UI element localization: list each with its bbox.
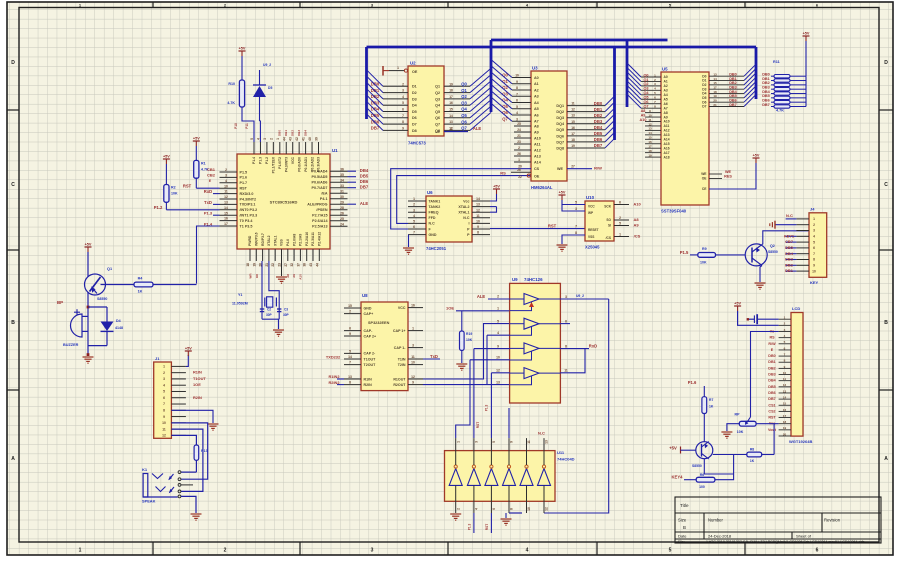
svg-text:DQ5: DQ5 — [556, 128, 564, 132]
U3 pin A11 — [514, 143, 531, 145]
svg-text:P1.3: P1.3 — [468, 523, 472, 530]
jack pin 4 — [178, 490, 181, 493]
U8 right pin CAP 1+ — [408, 330, 423, 332]
svg-text:J4: J4 — [810, 207, 815, 212]
svg-text:/INT0 P3.2: /INT0 P3.2 — [240, 208, 258, 212]
svg-text:3: 3 — [575, 207, 577, 211]
svg-text:14: 14 — [224, 206, 228, 210]
pot right to LCD pin18 — [756, 423, 779, 425]
J1 pin8 to ground — [171, 410, 213, 423]
KEY pin 6 — [796, 247, 809, 249]
svg-text:U8: U8 — [362, 293, 368, 298]
svg-text:P1.5: P1.5 — [240, 170, 248, 174]
svg-text:10K: 10K — [466, 338, 473, 342]
LCD pin 10 — [779, 374, 791, 376]
svg-text:DB2: DB2 — [594, 113, 603, 118]
title block — [675, 497, 881, 543]
inverter 5 — [520, 469, 533, 486]
svg-text:DB0: DB0 — [278, 130, 282, 136]
U1 bottom pin P2.1/A9 — [299, 249, 301, 261]
KEY pin 7 — [796, 253, 809, 255]
svg-text:Q4: Q4 — [643, 91, 649, 95]
svg-text:7: 7 — [349, 361, 351, 365]
header J4 KEY — [809, 213, 827, 277]
svg-text:D3: D3 — [412, 97, 417, 101]
svg-text:5: 5 — [402, 101, 404, 105]
U8 right pin T1IN — [408, 358, 423, 360]
KEY pin5 label — [786, 241, 797, 243]
svg-text:P4.3/INT2: P4.3/INT2 — [240, 197, 257, 201]
svg-text:Number: Number — [708, 518, 723, 523]
svg-text:19: 19 — [571, 144, 575, 148]
svg-text:2: 2 — [163, 371, 165, 375]
svg-text:CAP-: CAP- — [364, 329, 374, 333]
jack pin 2 — [178, 478, 181, 481]
svg-text:10: 10 — [411, 361, 415, 365]
U1 bottom pin P2.0/A8 — [293, 249, 295, 261]
U5 pin D2 / net DB2 — [709, 84, 744, 86]
U1 right pin P0.6/AD6 — [330, 181, 348, 183]
svg-text:R/W: R/W — [768, 342, 776, 346]
svg-text:D8: D8 — [412, 129, 417, 133]
LCD pin 5 — [779, 343, 791, 345]
svg-text:Y1: Y1 — [238, 293, 242, 297]
svg-text:DB0: DB0 — [594, 101, 603, 106]
svg-text:TxD: TxD — [430, 354, 438, 359]
svg-text:4: 4 — [413, 214, 415, 218]
svg-text:WR/P3.6: WR/P3.6 — [255, 232, 259, 246]
svg-text:ALE: ALE — [360, 201, 369, 206]
net DB7 — [348, 187, 357, 189]
svg-text:23: 23 — [278, 263, 282, 267]
IC U7 74HC126 quad buffer — [510, 283, 561, 403]
svg-text:1: 1 — [813, 217, 815, 221]
svg-text:30: 30 — [340, 195, 344, 199]
RAM U3 HM6264 — [531, 71, 567, 181]
J1 pin 5 — [171, 390, 186, 392]
svg-text:P1.3: P1.3 — [485, 404, 489, 411]
buffer 4 — [524, 368, 539, 379]
LCD pin 1 — [779, 318, 791, 320]
svg-text:12: 12 — [783, 383, 787, 387]
svg-text:P2.7/A15: P2.7/A15 — [312, 214, 327, 218]
svg-text:WR: WR — [249, 273, 253, 279]
svg-text:R1OUT: R1OUT — [393, 377, 406, 381]
svg-text:+5V: +5V — [559, 191, 566, 195]
svg-text:19: 19 — [252, 263, 256, 267]
U3 pin A6 — [512, 114, 531, 116]
svg-text:A9: A9 — [292, 274, 296, 278]
svg-text:5: 5 — [349, 350, 351, 354]
svg-text:Sheet of: Sheet of — [796, 534, 812, 539]
U7 input wires — [488, 298, 510, 300]
U2 pin Q7 output — [444, 123, 470, 125]
svg-text:+5V: +5V — [163, 155, 170, 159]
U1 left pin T1 P3.5 — [220, 225, 238, 227]
svg-text:RST: RST — [548, 224, 557, 229]
KEY pin 9 — [796, 264, 809, 266]
svg-text:44: 44 — [315, 263, 319, 267]
svg-text:4: 4 — [163, 383, 165, 387]
svg-text:Q1: Q1 — [435, 85, 440, 89]
U1 bottom pin P2.3/A11 — [312, 249, 314, 261]
U1 top pin P1.2 — [266, 142, 268, 154]
svg-text:A: A — [884, 456, 888, 462]
svg-text:J1: J1 — [155, 356, 160, 361]
svg-text:8: 8 — [516, 86, 518, 90]
svg-text:U9: U9 — [512, 277, 518, 282]
ground — [273, 329, 284, 331]
svg-text:32: 32 — [290, 263, 294, 267]
svg-text:/PSEN: /PSEN — [316, 208, 327, 212]
svg-text:A4: A4 — [664, 93, 668, 97]
svg-text:34: 34 — [340, 178, 344, 182]
svg-text:8: 8 — [163, 408, 165, 412]
svg-text:X25045: X25045 — [585, 245, 600, 250]
ground — [755, 282, 766, 284]
svg-text:D1: D1 — [412, 85, 417, 89]
svg-text:1K: 1K — [750, 459, 755, 463]
svg-text:A8: A8 — [641, 109, 646, 113]
svg-text:Q7: Q7 — [461, 126, 467, 131]
svg-text:3: 3 — [475, 441, 479, 443]
U5 pin D1 / net DB1 — [709, 80, 744, 82]
svg-text:Title: Title — [680, 503, 689, 508]
svg-text:9: 9 — [813, 264, 815, 268]
svg-text:2: 2 — [456, 508, 460, 510]
svg-text:27: 27 — [284, 263, 288, 267]
U2 pin Q4 output — [444, 104, 470, 106]
KEY pin 8 — [796, 259, 809, 261]
svg-text:S8550: S8550 — [692, 464, 702, 468]
svg-text:CAP 1+: CAP 1+ — [393, 329, 406, 333]
svg-text:KEY1: KEY1 — [784, 233, 795, 238]
U3 pin DQ6 / net DB5 — [567, 135, 605, 137]
svg-text:10: 10 — [812, 269, 816, 273]
svg-text:Q7: Q7 — [502, 116, 508, 121]
svg-text:ALE: ALE — [473, 126, 482, 131]
svg-text:DQ8: DQ8 — [556, 146, 564, 150]
svg-text:8: 8 — [349, 381, 351, 385]
jack contact arrow1 — [169, 474, 174, 480]
svg-text:3: 3 — [516, 117, 518, 121]
LCD pin 14 — [779, 398, 791, 400]
svg-text:Q6: Q6 — [435, 116, 440, 120]
U1 right pin P0.5/AD5 — [330, 176, 348, 178]
U6 left pin GND — [408, 234, 426, 236]
KEY pin9 label — [786, 264, 797, 266]
svg-text:A2: A2 — [664, 84, 668, 88]
svg-text:DB5: DB5 — [360, 174, 369, 179]
svg-text:4: 4 — [813, 235, 815, 239]
svg-text:Q2: Q2 — [770, 244, 775, 248]
svg-text:18: 18 — [648, 149, 652, 153]
svg-text:5: 5 — [575, 200, 577, 204]
J1 pin 6 — [171, 397, 186, 399]
inverter 3 — [485, 469, 498, 486]
svg-text:Q6: Q6 — [502, 110, 508, 115]
KEY pin6 label — [786, 247, 797, 249]
svg-text:9: 9 — [497, 344, 499, 348]
U2 pin D8 / net DB7 — [383, 129, 408, 131]
svg-text:P10: P10 — [234, 123, 238, 129]
svg-text:DB3: DB3 — [768, 373, 775, 377]
svg-text:P4.1: P4.1 — [320, 197, 328, 201]
svg-text:DB2: DB2 — [768, 366, 775, 370]
U1 top pin P1.1/T2EX — [272, 142, 274, 154]
svg-text:+5V: +5V — [193, 137, 200, 141]
svg-text:1K: 1K — [709, 405, 714, 409]
svg-text:21: 21 — [517, 134, 521, 138]
U5 pin A16 — [645, 147, 661, 149]
U3 R/W pin 27 — [567, 168, 592, 170]
U1 top pin P0.1/AD1 — [305, 142, 307, 154]
U6 left pin N.C — [408, 222, 426, 224]
U2 pin D2 / net DB1 — [383, 92, 408, 94]
svg-text:U5: U5 — [662, 67, 668, 72]
svg-text:A9: A9 — [534, 130, 539, 134]
svg-text:ALE: ALE — [477, 294, 486, 299]
U5 pin D4 / net DB4 — [709, 93, 744, 95]
U3 pin DQ5 / net DB4 — [567, 129, 605, 131]
U1 top pin P0.0/AD0 — [298, 142, 300, 154]
svg-text:D7: D7 — [702, 105, 706, 109]
svg-text:CAP 2+: CAP 2+ — [364, 334, 377, 338]
LCD pin 2 — [779, 324, 791, 326]
capacitor C3 30P — [277, 308, 281, 310]
svg-text:C3: C3 — [284, 308, 288, 312]
svg-text:U6: U6 — [427, 190, 433, 195]
svg-text:CS2: CS2 — [768, 409, 775, 413]
svg-text:P2.1/A9: P2.1/A9 — [299, 234, 303, 246]
KEY pin8 label — [786, 259, 797, 261]
svg-text:R11: R11 — [773, 60, 780, 64]
U6 right pin — [472, 217, 490, 219]
wire Q1 collector down — [87, 292, 89, 354]
LCD Vo wire to pot RP — [751, 332, 779, 418]
svg-text:R9: R9 — [702, 247, 707, 251]
svg-text:A12: A12 — [534, 148, 541, 152]
U5 pin A17 — [645, 152, 661, 154]
svg-text:7: 7 — [516, 92, 518, 96]
svg-text:+5V: +5V — [734, 302, 741, 306]
svg-text:7: 7 — [402, 114, 404, 118]
svg-text:14: 14 — [348, 355, 352, 359]
svg-text:3: 3 — [413, 208, 415, 212]
IC U10 X25045 — [585, 201, 614, 241]
U1 right pin P0.4/AD4 — [330, 170, 348, 172]
svg-text:OE: OE — [534, 175, 540, 179]
svg-text:24: 24 — [340, 222, 344, 226]
svg-text:B: B — [11, 320, 15, 326]
svg-text:+5V: +5V — [753, 154, 760, 158]
KEY pin 3 — [796, 230, 809, 232]
ground — [403, 247, 414, 249]
LCD pin 8 — [779, 361, 791, 363]
J1 pin 4 — [171, 384, 186, 386]
svg-text:DQ4: DQ4 — [556, 122, 565, 126]
svg-text:DB3: DB3 — [297, 130, 301, 136]
svg-text:16: 16 — [783, 408, 787, 412]
svg-text:N.C: N.C — [786, 213, 793, 218]
svg-text:D: D — [11, 60, 15, 66]
svg-text:1OE: 1OE — [193, 382, 201, 387]
svg-text:37: 37 — [296, 263, 300, 267]
U3 /OE pin 22 wire to U6 — [397, 176, 531, 224]
svg-text:8: 8 — [402, 120, 404, 124]
svg-text:Q3: Q3 — [461, 100, 467, 105]
svg-text:A8: A8 — [633, 217, 639, 222]
svg-text:B: B — [884, 320, 888, 326]
svg-text:FREQ: FREQ — [429, 211, 439, 215]
svg-text:3: 3 — [412, 344, 414, 348]
net DB5 — [348, 176, 357, 178]
svg-text:R2OUT: R2OUT — [393, 383, 406, 387]
svg-text:19: 19 — [783, 426, 787, 430]
ground — [456, 363, 467, 365]
jack pin3 stub — [181, 484, 193, 486]
svg-text:LE: LE — [435, 130, 440, 134]
svg-text:2: 2 — [224, 548, 227, 554]
svg-text:16: 16 — [571, 126, 575, 130]
U5 pin D7 / net DB7 — [709, 106, 744, 108]
svg-text:A10: A10 — [664, 120, 670, 124]
J1 pin 10 — [171, 422, 186, 424]
svg-text:B: B — [683, 525, 686, 530]
svg-text:3: 3 — [813, 229, 815, 233]
svg-text:3: 3 — [371, 548, 374, 554]
svg-text:1K: 1K — [138, 290, 143, 294]
svg-text:40: 40 — [308, 137, 312, 141]
svg-text:N.C: N.C — [429, 222, 436, 226]
resistor R19 10K — [456, 310, 510, 312]
jack pin 5 — [178, 495, 181, 498]
svg-text:11: 11 — [224, 190, 228, 194]
U10 VSS to ground — [562, 235, 585, 244]
U5 pin D0 / net DB0 — [709, 75, 744, 77]
svg-text:A14: A14 — [534, 160, 542, 164]
svg-text:6: 6 — [516, 99, 518, 103]
U1 bottom pin XTAL2 — [268, 249, 270, 261]
svg-text:11: 11 — [571, 102, 575, 106]
svg-text:A9: A9 — [633, 223, 639, 228]
bus: address bus (top) — [491, 39, 668, 42]
svg-text:P1.6: P1.6 — [688, 380, 697, 385]
svg-text:Q6: Q6 — [461, 119, 467, 124]
svg-text:C2: C2 — [267, 308, 271, 312]
node junction — [87, 353, 90, 356]
U3 pin DQ2 / net DB1 — [567, 111, 605, 113]
Q2 collector wire to KEY row3 — [762, 231, 809, 245]
svg-text:KEY4: KEY4 — [672, 475, 684, 480]
svg-text:VCC: VCC — [291, 156, 295, 164]
IC U8 SP3232EEN — [361, 302, 408, 391]
svg-text:BP: BP — [57, 300, 63, 305]
svg-text:7: 7 — [413, 231, 415, 235]
svg-text:R2: R2 — [171, 186, 176, 190]
U3 pin A2 — [512, 89, 531, 91]
U2 pin Q8 output — [444, 129, 470, 131]
svg-text:Q2: Q2 — [461, 94, 467, 99]
svg-text:4: 4 — [225, 179, 227, 183]
svg-text:D2: D2 — [412, 91, 417, 95]
svg-text:1 #TC 2018 20181207 GJL RJH+-: 1 #TC 2018 20181207 GJL RJH+-T2 LPCBQM=W… — [706, 540, 864, 544]
svg-text:3: 3 — [225, 174, 227, 178]
U8 right pin R2OUT — [408, 384, 423, 386]
svg-text:VSS: VSS — [588, 235, 594, 239]
svg-text:11.0592M: 11.0592M — [232, 302, 248, 306]
J1 pin 1 — [171, 365, 186, 367]
svg-text:1: 1 — [619, 232, 621, 236]
svg-text:5: 5 — [492, 441, 496, 443]
svg-text:6: 6 — [402, 108, 404, 112]
svg-text:DQ7: DQ7 — [556, 140, 564, 144]
jack pin 1 — [178, 471, 181, 474]
U2 pin Q1 output — [444, 85, 470, 87]
svg-text:11: 11 — [648, 118, 652, 122]
svg-text:17: 17 — [449, 95, 453, 99]
svg-text:LCD: LCD — [792, 306, 800, 311]
svg-text:11: 11 — [783, 377, 787, 381]
svg-text:74HC2051: 74HC2051 — [426, 246, 447, 251]
svg-text:74HC573: 74HC573 — [408, 141, 426, 146]
svg-text:N.C: N.C — [463, 216, 470, 220]
svg-text:13: 13 — [496, 380, 500, 384]
svg-text:15: 15 — [224, 211, 228, 215]
buffer 2 — [524, 318, 539, 329]
LCD pin 11 — [779, 380, 791, 382]
join and ground — [88, 345, 107, 347]
svg-text:DB5: DB5 — [785, 245, 794, 250]
U3 pin A13 — [514, 155, 531, 157]
svg-text:13: 13 — [449, 120, 453, 124]
svg-text:WE: WE — [557, 167, 563, 171]
U3 pin A14 — [514, 161, 531, 163]
svg-text:22: 22 — [271, 263, 275, 267]
U3 pin A5 — [512, 108, 531, 110]
svg-text:RD/P3.7: RD/P3.7 — [261, 233, 265, 246]
svg-text:11: 11 — [449, 127, 453, 131]
U1 left pin P1.7 — [220, 182, 238, 184]
U10 right pins — [614, 204, 629, 206]
svg-text:FFD: FFD — [429, 216, 436, 220]
U5 pin A18 — [645, 156, 661, 158]
U6 right pin — [472, 222, 490, 224]
svg-text:P2.0/A8: P2.0/A8 — [292, 234, 296, 246]
svg-text:26: 26 — [517, 168, 521, 172]
svg-text:R10: R10 — [228, 82, 235, 86]
U8 right pin R1OUT — [408, 378, 423, 380]
U5 pin A1 — [641, 80, 661, 82]
svg-text:RESET: RESET — [588, 228, 599, 232]
svg-text:6: 6 — [619, 200, 621, 204]
U2 pin Q2 output — [444, 92, 470, 94]
svg-text:18: 18 — [246, 263, 250, 267]
svg-text:P2.5/A13: P2.5/A13 — [312, 225, 327, 229]
svg-text:T2OUT: T2OUT — [364, 363, 377, 367]
U5 pin A0 — [641, 76, 661, 78]
U8 left pin GND — [344, 307, 361, 309]
U1 right pin P2.6/A14 — [330, 220, 348, 222]
svg-text:VCC: VCC — [398, 306, 406, 310]
svg-text:43: 43 — [289, 137, 293, 141]
svg-text:DB0: DB0 — [768, 354, 775, 358]
ground at VSS — [281, 261, 283, 276]
svg-text:19: 19 — [648, 153, 652, 157]
svg-text:P0.0/AD0: P0.0/AD0 — [297, 157, 301, 172]
svg-text:1: 1 — [163, 365, 165, 369]
svg-text:100: 100 — [699, 485, 705, 489]
